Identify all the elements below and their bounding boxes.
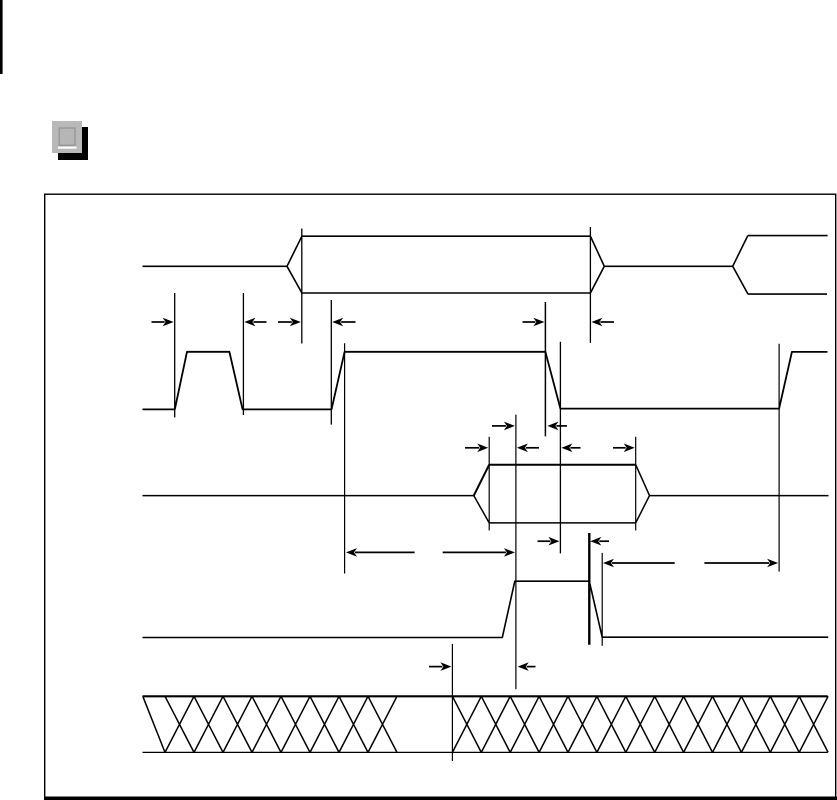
arrow into t4b right <box>556 425 567 427</box>
arrow into t4a left <box>523 321 536 323</box>
image placeholder icon <box>52 121 82 153</box>
crosshatch right segment <box>452 696 828 752</box>
arrow into t2 left <box>278 321 292 323</box>
arrow into t5 left <box>465 447 479 449</box>
arrow into t8 left <box>429 666 442 668</box>
arrow out t5b right <box>613 447 626 449</box>
arrow into t2 right <box>341 321 355 323</box>
dimension line t7 left <box>601 553 603 646</box>
dimension line t5 left <box>488 437 490 531</box>
dimension line t2 far right <box>589 227 591 343</box>
signal 4 waveform (pulse) <box>143 581 829 637</box>
arrow into t4a right <box>600 321 614 323</box>
arrow into t6 left <box>538 540 551 542</box>
crosshatch left segment <box>143 696 397 752</box>
long dimension t3a with gap <box>355 551 415 553</box>
signal 1 waveform (top bus) <box>143 236 828 295</box>
dimension line t5 right <box>635 437 637 531</box>
dimension line t3 right <box>515 415 517 690</box>
signal 2 waveform (clock) <box>143 352 828 410</box>
arrow into t4b left <box>492 425 506 427</box>
dimension line t2 right <box>330 300 332 425</box>
dimension line t8 left <box>451 644 453 761</box>
arrow into t1 right <box>253 321 266 323</box>
diagram frame <box>44 194 837 800</box>
dimension line t7 right <box>778 344 780 572</box>
arrow into t8 right <box>527 666 536 668</box>
long dimension t7 with gap <box>612 562 675 564</box>
dimension line t4 left <box>544 302 546 436</box>
dimension line t1 left <box>174 293 176 417</box>
arrow into t6 right <box>599 540 609 542</box>
arrow into t5 mid <box>526 447 539 449</box>
signal 3 waveform (data bus) <box>143 465 829 523</box>
dimension line t6 right <box>588 533 590 645</box>
arrow out t5b left <box>570 447 580 449</box>
dimension line t3 left <box>344 343 346 573</box>
page margin change bar <box>0 0 3 74</box>
image placeholder icon shadow <box>58 127 88 160</box>
dimension line t1 right <box>242 293 244 415</box>
signal 5 bus rails <box>143 696 828 752</box>
dimension line t2 left <box>301 229 303 344</box>
dimension line t4 right <box>559 342 561 554</box>
arrow into t1 left <box>152 321 165 323</box>
